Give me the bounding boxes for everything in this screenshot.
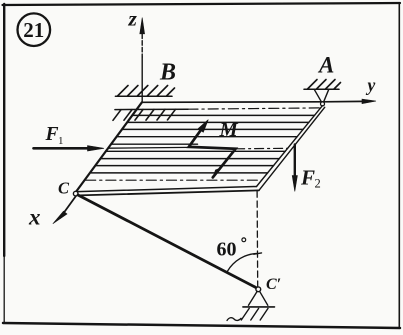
border frame left: [3, 4, 5, 256]
svg-text:21: 21: [23, 18, 44, 42]
plate right edge outer: [259, 107, 325, 190]
svg-text:60: 60: [217, 239, 237, 261]
svg-text:M: M: [219, 119, 239, 141]
force F2 arrow: [294, 145, 296, 178]
wall hatching at A: [304, 88, 339, 90]
rod C C': [78, 195, 256, 288]
dashed vertical drop line: [256, 191, 259, 286]
plate bottom edge upper: [78, 187, 257, 192]
arc tick: [254, 253, 262, 254]
pin support at C': [249, 291, 268, 305]
moment M zigzag arrow: [189, 128, 236, 178]
plate bottom edge lower: [79, 190, 259, 195]
svg-text:z: z: [128, 7, 138, 31]
plate left edge: [76, 102, 142, 191]
svg-text:F: F: [45, 124, 59, 145]
angle arc 60: [227, 253, 257, 271]
force F1 arrow: [34, 147, 91, 150]
problem number badge 21: [18, 13, 51, 46]
plate surface hatch lines: [91, 115, 315, 172]
pin circle at A: [321, 102, 325, 106]
svg-text:C: C: [58, 179, 70, 198]
wall hatching at B (lower strip on plate) + axis dash-dot line: [115, 108, 188, 110]
x axis: [60, 196, 76, 219]
ground squiggle: [227, 318, 241, 321]
svg-text:1: 1: [58, 135, 64, 147]
line of action through F1 / M level: [109, 146, 189, 149]
border frame right: [398, 3, 400, 328]
svg-text:C′: C′: [266, 276, 281, 293]
z axis: [141, 34, 143, 57]
plate right edge inner: [257, 106, 323, 187]
svg-text:F: F: [300, 166, 315, 190]
svg-text:2: 2: [315, 177, 321, 191]
node C' pin circle: [256, 287, 261, 292]
svg-text:y: y: [366, 75, 376, 95]
svg-text:B: B: [159, 60, 176, 86]
border frame top: [3, 3, 401, 5]
svg-text:A: A: [317, 53, 334, 78]
support hatching: [241, 308, 268, 320]
border frame bottom: [3, 323, 400, 328]
wall hatching at B (upper strip): [115, 95, 172, 97]
plate top edge + y axis: [142, 100, 363, 103]
node C pin circle: [73, 191, 78, 196]
svg-text:x: x: [28, 205, 41, 230]
plate centerline dash-dot near bottom: [86, 179, 262, 181]
support link triangle at A: [314, 89, 329, 102]
